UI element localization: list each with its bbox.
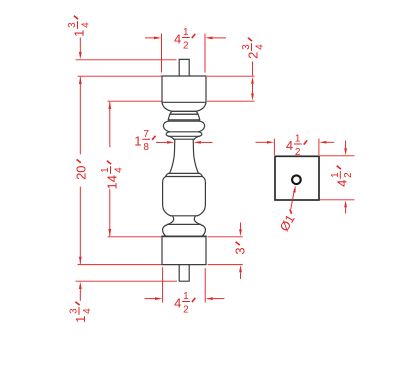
dim 4-1/2 bottom: label: [174, 291, 195, 315]
lower bead: [163, 225, 168, 237]
dim 2-3/4: leader and arrows: [252, 62, 254, 76]
dim 14-1/4: label: [100, 161, 124, 190]
plan dim 4-1/2 right: extension lines: [320, 155, 355, 157]
extension line: bottom block bottom, left: [78, 264, 162, 266]
svg-text:4: 4: [174, 32, 181, 47]
extension line: top block bottom, right: [207, 100, 255, 102]
svg-text:3: 3: [67, 22, 78, 28]
svg-text:2: 2: [183, 304, 189, 315]
plan view: square block with round hole: [275, 156, 319, 200]
dim 4-1/2 top: label: [174, 27, 195, 51]
dim 20: lower arrow: [79, 187, 81, 264]
plan dim 4-1/2 right: lower arrow: [344, 200, 347, 207]
top square block: [162, 76, 206, 102]
dim 4-1/2 bottom: right arrow: [206, 297, 213, 300]
svg-text:4: 4: [286, 138, 293, 153]
svg-text:2: 2: [343, 172, 354, 178]
dim 1-3/4 top: arrow: [79, 38, 81, 53]
upper bead: [163, 121, 169, 132]
svg-text:1: 1: [72, 30, 87, 37]
svg-text:2: 2: [246, 52, 261, 59]
dim 20: label: [74, 159, 89, 180]
neck (vase taper): [170, 139, 175, 173]
extension line: bottom block top, left: [108, 236, 162, 238]
collar ring above neck: [166, 132, 169, 137]
bottom tenon pin: [179, 265, 189, 282]
svg-text:2: 2: [183, 40, 189, 51]
extension line: bottom block bottom, right: [208, 264, 243, 266]
dim 1-3/4 bottom: arrow: [79, 282, 82, 289]
svg-text:1: 1: [330, 172, 341, 178]
fillet at bulb shoulder: [169, 172, 200, 174]
dim 1-3/4 bottom: label: [69, 302, 93, 323]
svg-text:2: 2: [295, 147, 301, 158]
svg-text:14: 14: [105, 175, 120, 189]
svg-text:4: 4: [113, 167, 124, 173]
dim 4-1/2 top: right arrow: [205, 37, 212, 40]
svg-text:4: 4: [254, 44, 265, 50]
svg-text:8: 8: [143, 142, 149, 153]
plan dim 4-1/2 top: extension lines: [273, 139, 275, 155]
svg-text:3: 3: [241, 44, 252, 50]
plan dim 4-1/2 right: upper arrow: [345, 141, 347, 149]
dim 1-3/4 top: label: [67, 16, 91, 37]
dim 3: label: [233, 242, 248, 255]
svg-text:3: 3: [69, 308, 80, 314]
svg-text:1: 1: [295, 134, 301, 145]
dim 14-1/4: upper arrow: [108, 102, 111, 109]
extension line: tenon bottom level: [76, 280, 178, 282]
dim 3: upper arrow: [240, 223, 242, 230]
extension line: bottom block top, right: [208, 236, 243, 238]
dim 1-7/8: left arrow: [156, 141, 167, 143]
extension line: tenon top level: [76, 59, 177, 61]
svg-text:4: 4: [80, 22, 91, 28]
dim 4-1/2 top: extension lines: [161, 34, 163, 73]
fillet ring under bowl: [170, 111, 198, 114]
plan dim 4-1/2 right: label: [330, 166, 354, 187]
dim 4-1/2 top: left arrow: [145, 37, 154, 39]
extension line: top block bottom, left: [108, 100, 162, 102]
svg-text:1: 1: [183, 27, 189, 38]
plan dim 4-1/2 top: right arrow: [319, 141, 326, 144]
top tenon pin: [179, 59, 189, 76]
cove below bulb: [168, 216, 174, 225]
hole diameter leader: [291, 192, 294, 209]
svg-text:1: 1: [134, 133, 141, 148]
svg-text:4: 4: [334, 180, 349, 187]
dim 14-1/4: lower arrow: [109, 189, 111, 236]
extension line: block top, left: [78, 75, 162, 77]
svg-text:7: 7: [143, 129, 149, 140]
bowl under top block: [162, 102, 206, 111]
svg-text:20: 20: [74, 165, 89, 179]
dim 1-7/8: label: [134, 129, 155, 153]
plan dim 4-1/2 top: label: [286, 134, 307, 158]
dim 3: lower arrow: [239, 265, 242, 272]
svg-text:1: 1: [100, 167, 111, 173]
dim 1-7/8: right arrow: [194, 141, 201, 144]
dim 4-1/2 bottom: left arrow: [145, 298, 156, 300]
svg-text:1: 1: [183, 291, 189, 302]
bottom square block: [162, 235, 206, 237]
dim 2-3/4: label: [241, 38, 265, 59]
svg-text:4: 4: [174, 296, 181, 311]
dim 4-1/2 bottom: extension lines: [162, 267, 164, 302]
plan dim 4-1/2 top: left arrow: [256, 141, 267, 143]
hole diameter label: [277, 208, 300, 234]
main bulb: [163, 177, 171, 216]
baluster turned profile (front elevation): [162, 59, 206, 281]
dim 20: upper arrow: [79, 77, 82, 84]
svg-text:3: 3: [233, 247, 248, 254]
hole circle: [292, 175, 301, 184]
svg-text:1: 1: [73, 316, 88, 323]
svg-text:4: 4: [82, 308, 93, 314]
extension line: block top, right: [207, 75, 255, 77]
